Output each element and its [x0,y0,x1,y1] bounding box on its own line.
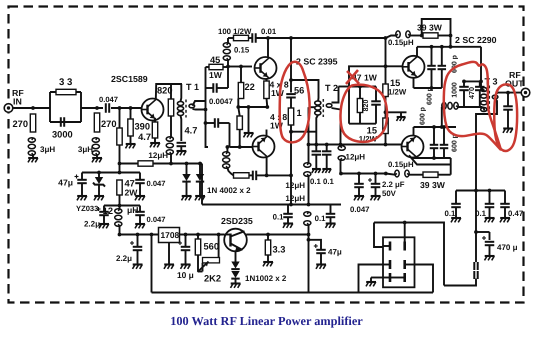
resistor 3.3 [265,235,285,256]
svg-text:820: 820 [363,100,370,112]
wire top loop [422,19,451,47]
wire relay left riser [374,223,383,248]
svg-text:0.15μH: 0.15μH [388,160,414,169]
node Q3 base [238,145,242,149]
svg-text:270: 270 [101,119,117,129]
ground 3.3 [263,255,273,266]
wire relay row2 feed [359,265,384,293]
inductor 3uH input [28,138,55,155]
ground 470u [485,245,495,260]
relay box [383,237,415,287]
node diode 1 [185,162,189,166]
wire T3 bottom choke [442,102,483,109]
ground zener [94,185,104,201]
node RF out cap [506,91,510,95]
resistor 4x8 upper [264,78,289,107]
wire T2 sec bottom lead [332,108,341,145]
node Q1 base feed [118,106,122,110]
svg-text:T 1: T 1 [186,82,199,92]
node diode 2 [198,162,202,166]
capacitor 0.01 [252,27,277,43]
svg-text:820: 820 [157,86,173,96]
node relay top [403,221,407,225]
wire T3 sec bottom [476,99,497,191]
capacitor interstage low [206,118,230,128]
svg-text:1: 1 [297,108,302,118]
wire attenuator bottom [50,121,81,123]
ground mid 15 [397,112,406,121]
wire snubber to T2 bottom [291,131,316,133]
svg-text:3.3: 3.3 [273,245,286,255]
wire rail 204 [249,204,341,206]
wire 0.01 to node [256,37,291,39]
attenuator box right wire [80,92,82,122]
resistor 33 series [56,77,76,95]
wire fb node to 1ohm [267,174,291,176]
capacitor 0.047 supply a [135,173,165,189]
capacitor 0.1 out a [445,191,461,219]
capacitor out coupling [503,93,513,129]
transistor Q5 2SC2290 lower [402,136,424,158]
wire choke to emitter [441,107,443,127]
node rail 120 [118,233,122,237]
label 600p mid a [427,87,434,105]
ground 0.47 out [500,207,510,222]
svg-text:0.15: 0.15 [234,46,250,55]
ground 0.1 out b [485,207,495,222]
svg-text:12μH: 12μH [285,194,305,203]
wire feed lower up [450,158,452,175]
capacitor 600p b [438,47,447,88]
svg-text:390: 390 [135,122,151,132]
svg-text:470: 470 [467,87,476,99]
capacitor 3000 parallel [52,117,73,139]
wire x291 top [290,38,292,93]
capacitor 0.0047 [206,83,233,106]
relay contact row3 [383,273,405,282]
node 22 top [239,65,243,69]
wire 308 down [308,235,310,293]
svg-text:56: 56 [294,86,304,96]
inductor 12uH Q1 feed [148,116,173,164]
svg-text:0.0047: 0.0047 [209,97,233,106]
wire T1 tap down [206,88,209,147]
node 600p c [432,125,436,129]
label 1N4002 [207,186,251,195]
wire input to attenuator [13,107,50,109]
node 600p b [440,45,444,49]
wire Q5 collector diag [409,155,451,164]
transformer T3 [481,77,498,114]
label 600p lower [452,134,459,152]
wire driver base line [228,66,252,68]
node Q2 collector riser [266,36,270,40]
ground 0.1 mid a [283,217,293,228]
node bias A [118,162,122,166]
svg-text:IN: IN [13,97,22,107]
wire bottom rail [152,292,434,294]
transformer T2 [315,83,338,117]
svg-text:47μ: 47μ [58,178,73,188]
node lower base 15 [384,143,388,147]
ground diode a [182,182,192,201]
node rail 198 [196,233,200,237]
node T3 top row [479,80,483,84]
capacitor 0.1 T2 a [310,145,322,187]
node rail 137 [136,233,140,237]
resistor 270 input shunt [12,114,35,132]
ground 0.047 a [135,183,145,200]
red ellipse snubber [280,62,310,143]
wire Vcc rail left [82,172,140,174]
wire Q3 collector [266,157,268,176]
node top rail [289,36,293,40]
wire rail 204 left [202,204,249,206]
wire 820 box bottom [349,113,376,124]
wire T3 bottom lead [483,107,485,111]
node out rail b [488,189,492,193]
node after attenuator [95,106,99,110]
wire Q3 base [230,146,253,148]
capacitor 600p d [440,127,449,158]
wire Q4 collector [416,47,418,58]
ground shunt 2 [92,155,102,162]
capacitor 47u supply [58,173,87,188]
resistor 4x8 lower [237,107,287,147]
capacitor feedback lower2 [249,171,267,181]
svg-text:10 μ: 10 μ [177,270,194,280]
wire 45 box right [227,67,229,88]
resistor 560 [195,235,219,256]
wire attenuator to C1 [81,107,103,109]
wire Q2 collector riser [267,38,269,58]
svg-text:4.7: 4.7 [138,132,151,142]
svg-text:3 3: 3 3 [59,77,72,88]
svg-text:0.047: 0.047 [147,215,166,224]
wire bias rail A [120,163,139,165]
wire output cap rail [456,190,505,192]
capacitor 0.1 out b [475,191,494,219]
wire bias rail B [153,163,202,165]
wire 47 2W to row [119,195,121,206]
capacitor 47u mid [309,240,342,265]
node rail 185 [184,233,188,237]
wire T3 top [481,47,484,91]
label 47 1W [352,73,378,83]
resistor 270 shunt 2 [94,113,116,132]
wire 1000 row [464,80,481,82]
node x291 fb [289,174,293,178]
svg-text:0.1: 0.1 [315,214,327,223]
svg-text:YZ033: YZ033 [76,204,98,213]
relay contact row2 [383,260,414,269]
wire 2SD rail [120,234,309,236]
node choke emitter [440,125,444,129]
svg-text:600 p: 600 p [427,87,434,105]
svg-text:1N 4002 x 2: 1N 4002 x 2 [207,186,251,195]
wire upper base path [339,86,350,88]
inductor 12uH supply [103,205,139,235]
inductor 12uH T2 feed [338,146,365,174]
trimmer 2K2 [198,255,222,284]
ground 0.1 out a [451,207,461,222]
svg-text:2.2μ: 2.2μ [84,220,100,229]
svg-text:1W: 1W [209,70,223,80]
wire relay row3 ground stub [371,277,383,279]
svg-text:0.047: 0.047 [350,205,370,214]
svg-text:3μH: 3μH [40,145,55,154]
caption [170,314,363,328]
regulator 1708 [159,228,180,243]
ground out red [503,129,513,133]
node 39 left [420,34,424,38]
resistor 100 1/2W [218,27,252,41]
resistor bias series [138,161,153,166]
wire emitter row [238,106,267,108]
node out rail [474,189,478,193]
ground Q1 emitter [150,138,160,147]
svg-text:100 1/2W: 100 1/2W [218,27,252,36]
wire relay right riser [374,223,444,286]
svg-text:0.01: 0.01 [261,27,277,36]
svg-text:2 SC 2290: 2 SC 2290 [455,35,497,45]
svg-text:2 SC 2395: 2 SC 2395 [296,57,338,67]
attenuator box left wire [49,92,51,122]
svg-text:0.1: 0.1 [310,177,322,186]
relay contact row1 [383,242,405,251]
wire bias-A to Vcc rail [119,164,121,173]
wire x291 bottom [290,125,292,205]
node mid 15 [384,110,388,114]
svg-text:T 3: T 3 [485,77,498,87]
capacitor 0.047 out [350,174,370,215]
resistor 820 Q1 [157,84,174,116]
resistor 47 2W [117,179,138,198]
capacitor 0.047 supply b [135,206,165,225]
svg-text:12μH: 12μH [346,153,366,162]
wire Q4 emitter [414,78,442,88]
node T2 feed base [339,143,343,147]
wire collector line upper [417,46,481,48]
svg-text:3μH: 3μH [78,145,93,154]
resistor 45 1W [206,55,229,80]
capacitor 2.2uF 50V [368,174,405,199]
ground 10u [177,265,194,281]
capacitor series ant a [474,262,477,270]
capacitor 600p c [430,127,439,158]
zener YZ033 [76,173,105,214]
ground 2.2uF [371,187,381,200]
svg-text:1708: 1708 [161,230,180,240]
capacitor 56 [286,86,304,98]
resistor 1 snubber [288,98,301,126]
node base line left [307,143,311,147]
node 0047 out [357,172,361,176]
node driver base left [226,65,230,69]
transformer T1 [177,82,199,118]
resistor feedback lower [234,173,250,178]
node zener [97,171,101,175]
wire T1 primary top [180,84,183,102]
svg-text:2.2 μF: 2.2 μF [382,180,405,189]
capacitor 600p a [427,47,436,88]
red ellipse T3 [444,62,501,150]
transistor Q2 2SC2395 upper [255,57,338,80]
ground 0.047 out [354,187,364,200]
svg-text:μH: μH [127,205,138,215]
svg-text:0.047: 0.047 [147,179,166,188]
svg-text:47μ: 47μ [328,248,342,257]
inductor 12uH mid upper [285,107,315,204]
wire 820 box top [349,86,376,88]
wire T2 primary top stub [291,80,319,102]
transistor Q3 2SC2395 lower [253,136,275,158]
label 600p mid b [420,107,427,125]
svg-text:50V: 50V [382,189,397,198]
wire 22 to row [237,99,239,108]
svg-text:0.15μH: 0.15μH [388,38,414,47]
wire Q5 emitter [414,127,457,136]
resistor 39 3W upper [417,23,451,39]
ground relay [366,278,376,287]
svg-text:1000: 1000 [452,82,459,98]
transistor Q1 2SC1589 [111,74,164,121]
ground 1708 [164,243,174,269]
svg-text:600 p: 600 p [420,107,427,125]
ground 2.2u a [99,215,109,228]
svg-text:0.47: 0.47 [508,209,523,218]
wire cap to lower base [229,123,231,147]
label 2.2u b [116,254,132,263]
red X mark [346,70,359,84]
node 600p c2 [432,156,436,160]
capacitor 0.1 mid b [315,205,336,224]
svg-text:12μH: 12μH [285,181,305,190]
capacitor 0.47 out [500,191,523,219]
label 600p upper [452,55,459,73]
ground T1 bottom [176,146,186,155]
node rail291 [289,203,293,207]
ground 2.2u b [133,265,143,269]
wire relay row1 up [404,223,406,242]
node input junction [31,106,35,110]
wire T1 secondary bottom lead [193,108,206,111]
ground 0.047 b [135,215,145,228]
wire lower feed rail [341,173,386,175]
ground R390 [126,136,136,148]
wire T1 secondary top lead [193,101,206,106]
capacitor 470 out [467,81,485,107]
node upper base 15 [384,64,388,68]
node T1 sec lead [204,108,208,112]
node emitter row a [236,105,240,109]
diode 1N1002 b [231,271,239,279]
capacitor 820 parallel [371,87,381,124]
svg-text:22: 22 [245,82,255,92]
resistor 15 upper [383,38,407,97]
node 47u stub [307,238,311,242]
ground 0.1 mid b [326,217,336,228]
ground 0.1 T2 b [322,155,331,173]
wire 151 down [151,235,153,293]
node sec lead a [314,143,318,147]
svg-text:12μH: 12μH [148,151,168,160]
node Q3 collector [265,174,269,178]
svg-text:1W: 1W [271,88,285,98]
svg-text:560: 560 [204,242,220,252]
wire relay row2 right [414,265,433,293]
wire Q5 collector [413,156,451,159]
resistor base feed [117,108,122,164]
resistor 39 3W lower [420,172,451,190]
ground 47u mid [316,265,326,269]
capacitor 0.1 mid a [273,205,293,222]
svg-text:470 μ: 470 μ [497,243,518,252]
node collector upper [289,78,293,82]
capacitor 2.2u b [130,235,142,265]
node ground stem [247,105,251,109]
node 600p d [442,125,446,129]
diode 1N1002 a [231,262,239,270]
svg-text:1/2W: 1/2W [388,88,407,97]
RF OUT connector [505,70,530,97]
ground diode b [195,182,205,201]
svg-text:15: 15 [390,78,400,88]
svg-text:45: 45 [210,55,220,65]
capacitor 4.7 T1 bottom [177,126,198,147]
svg-text:270: 270 [12,119,28,129]
wire attenuator top [50,91,81,93]
capacitor 0.1 T2 b [322,145,335,187]
capacitor series ant b [474,271,477,279]
svg-text:0.1: 0.1 [323,177,335,186]
wire mid node [386,97,407,119]
node filter row [118,204,122,208]
node 1000 [462,80,466,84]
node lower feed a [339,172,343,176]
wire pot right [218,235,220,258]
wire T1 primary bottom [180,116,183,142]
node T1 tap [204,121,208,125]
node feed upper [449,45,453,49]
resistor 4x8 lower b [266,130,268,137]
wire T3 out top [496,93,522,94]
wire ant bottom [444,279,476,286]
diode 1N4002 a [182,164,190,182]
node 22uf out [374,172,378,176]
wire top rail left [228,37,234,39]
wire 100 to 0.01 [249,37,253,39]
node rail 151 [150,233,154,237]
wire lower base line [309,144,402,146]
wire antenna branch [475,191,477,263]
node feed loop [449,34,453,38]
svg-text:2SC1589: 2SC1589 [111,74,148,84]
node emitter row b [265,105,269,109]
inductor 3uH shunt 2 [78,138,100,155]
red ellipse 820 [340,85,387,142]
transistor Q4 2SC2290 upper [403,35,497,78]
wire T2 sec top [332,87,339,103]
wire top rail right [291,37,386,39]
node rail 268 [266,233,270,237]
resistor 4.7 Q1 emitter [138,118,158,142]
resistor 390 Q1 base [128,108,150,136]
wire filter row [104,205,140,207]
capacitor 470u [482,232,518,252]
RF IN connector J1 [4,88,24,112]
svg-text:2K2: 2K2 [204,274,221,284]
